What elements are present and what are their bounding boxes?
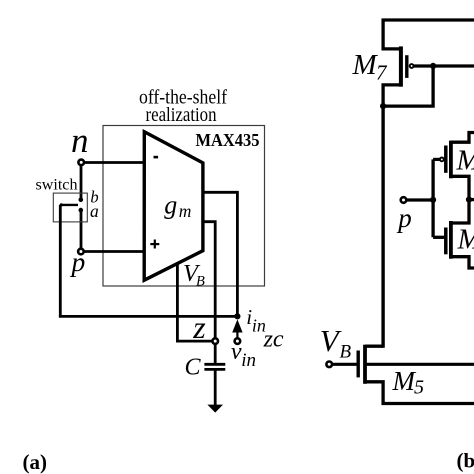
wire VB to M5 gate bbox=[332, 363, 357, 366]
wire arrow to vin circle bbox=[236, 331, 238, 338]
label vin bbox=[231, 339, 256, 371]
minus input marker bbox=[154, 156, 159, 159]
node p terminal circle bbox=[78, 249, 84, 255]
contact a dot bbox=[79, 208, 84, 213]
wire lower gate lead bbox=[433, 236, 446, 239]
node z terminal circle bbox=[212, 338, 218, 344]
svg-text:in: in bbox=[241, 350, 256, 371]
arrow iin bbox=[232, 319, 242, 332]
switch box bbox=[53, 193, 87, 222]
svg-text:z: z bbox=[192, 309, 206, 345]
svg-text:V: V bbox=[320, 323, 342, 358]
svg-text:realization: realization bbox=[146, 104, 217, 126]
svg-text:(a): (a) bbox=[23, 450, 48, 474]
svg-text:M: M bbox=[352, 49, 379, 81]
svg-text:B: B bbox=[196, 274, 205, 290]
svg-text:M: M bbox=[457, 224, 474, 256]
plus input marker bbox=[150, 240, 159, 249]
wire output to right edge bbox=[469, 198, 474, 201]
wire left rail M7 to M5 bbox=[381, 106, 384, 348]
transistor M7 gate bar bbox=[405, 55, 408, 78]
label M7 bbox=[352, 49, 389, 85]
switch arm bbox=[60, 204, 78, 206]
junction dot iin bbox=[234, 313, 240, 319]
svg-text:m: m bbox=[179, 201, 192, 221]
transistor M5 channel bar bbox=[363, 345, 367, 384]
wire p to + input bbox=[84, 250, 145, 253]
node p terminal circle (b) bbox=[401, 197, 407, 203]
node vin terminal circle bbox=[235, 338, 241, 344]
transistor M1 gate bar bbox=[444, 146, 448, 173]
junction dot gate rail bbox=[430, 197, 436, 203]
wire capacitor to ground bbox=[214, 369, 217, 406]
label VB bbox=[183, 260, 205, 290]
wire pole to input node bbox=[59, 315, 238, 318]
wire gm output upper stub bbox=[203, 192, 237, 316]
wire M5 source lead to right edge bbox=[365, 382, 474, 404]
transistor M2 gate bar bbox=[444, 228, 448, 255]
svg-text:M: M bbox=[456, 145, 474, 177]
wire M1 source lead up bbox=[451, 133, 474, 143]
wire gm output lower stub to z bbox=[203, 222, 215, 338]
wire switch pole down bbox=[59, 205, 62, 317]
transistor M1 channel bar bbox=[449, 141, 453, 179]
node n terminal circle bbox=[78, 160, 84, 166]
wire VB pin down-left to z bbox=[177, 265, 211, 342]
svg-text:switch: switch bbox=[36, 176, 78, 193]
svg-text:a: a bbox=[90, 201, 99, 221]
junction dot M7 gate bbox=[430, 63, 436, 69]
wire M1 drain lead down bbox=[451, 176, 469, 200]
op-amp U1 (gm trapezoid) bbox=[144, 132, 203, 280]
wire M2 source lead bbox=[451, 257, 474, 268]
transistor M5 gate bar bbox=[357, 351, 360, 378]
label: off-the-shelf realization bbox=[139, 87, 227, 126]
svg-text:C: C bbox=[185, 355, 202, 381]
wire a down to p bbox=[80, 210, 83, 248]
ground bbox=[207, 405, 223, 413]
svg-text:(b: (b bbox=[457, 449, 474, 473]
label M5 bbox=[392, 366, 425, 399]
transistor M7 channel bar bbox=[399, 46, 403, 86]
svg-text:7: 7 bbox=[376, 61, 388, 85]
junction dot output node bbox=[466, 197, 472, 203]
junction dot M7 drain bbox=[380, 103, 386, 109]
svg-text:B: B bbox=[340, 342, 352, 363]
svg-text:MAX435: MAX435 bbox=[196, 130, 260, 150]
wire p to gate rail bbox=[407, 198, 434, 201]
wire M7 gate to right edge bbox=[414, 64, 474, 67]
wire gate rail vertical bbox=[431, 159, 434, 237]
wire n down to contact b bbox=[80, 166, 83, 199]
wire M5 drain lead bbox=[365, 345, 383, 348]
transistor M2 channel bar bbox=[449, 221, 453, 259]
wire z to capacitor bbox=[214, 344, 217, 364]
wire M7 drain lead bbox=[383, 85, 401, 106]
wire top supply rail bbox=[383, 20, 474, 49]
wire M5 gate bus to right edge bbox=[365, 363, 474, 366]
capacitor C1 plates bbox=[204, 364, 225, 369]
svg-text:p: p bbox=[70, 246, 86, 277]
node VB terminal circle bbox=[326, 362, 332, 368]
svg-text:M: M bbox=[392, 366, 417, 396]
label gm bbox=[164, 191, 191, 222]
svg-text:5: 5 bbox=[414, 377, 424, 399]
MAX435 outline box bbox=[103, 126, 265, 287]
contact b dot bbox=[79, 198, 84, 203]
wire upper gate lead bbox=[433, 158, 440, 161]
transistor M7 gate bubble bbox=[410, 64, 414, 68]
transistor M1 gate bubble bbox=[440, 158, 444, 162]
svg-text:g: g bbox=[164, 191, 177, 220]
wire n to - input bbox=[84, 161, 145, 164]
svg-text:n: n bbox=[71, 121, 89, 160]
wire M7 gate-drain feedback bbox=[383, 66, 433, 106]
wire M2 drain lead up bbox=[451, 200, 469, 223]
svg-text:p: p bbox=[396, 203, 412, 233]
label iin bbox=[246, 305, 266, 335]
svg-text:zc: zc bbox=[263, 327, 284, 353]
label VB (b) bbox=[320, 323, 352, 363]
